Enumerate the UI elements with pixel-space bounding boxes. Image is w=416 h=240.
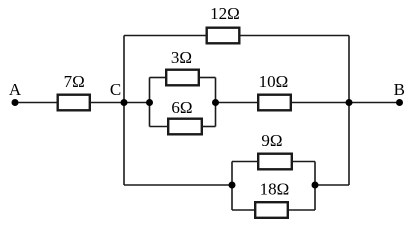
svg-text:12Ω: 12Ω bbox=[210, 4, 240, 23]
svg-text:18Ω: 18Ω bbox=[260, 180, 290, 199]
svg-text:6Ω: 6Ω bbox=[171, 98, 192, 117]
svg-text:10Ω: 10Ω bbox=[259, 72, 289, 91]
svg-text:A: A bbox=[9, 80, 22, 99]
svg-text:7Ω: 7Ω bbox=[64, 72, 85, 91]
svg-text:3Ω: 3Ω bbox=[171, 48, 192, 67]
svg-text:B: B bbox=[394, 80, 405, 99]
svg-text:9Ω: 9Ω bbox=[261, 131, 282, 150]
svg-text:C: C bbox=[110, 80, 121, 99]
